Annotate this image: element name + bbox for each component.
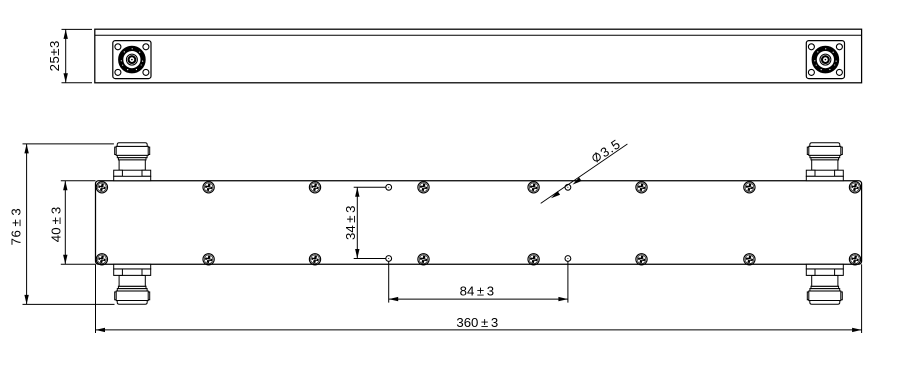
screws top row [96, 182, 860, 193]
main view body [96, 181, 862, 265]
dimension 76±3 [23, 144, 115, 305]
svg-text:84 ± 3: 84 ± 3 [460, 284, 495, 299]
connector J1 flange (top view left) [113, 41, 151, 79]
connector J3 (main view top-left) [114, 143, 151, 181]
svg-text:76 ± 3: 76 ± 3 [9, 208, 24, 246]
svg-text:3.5: 3.5 [598, 136, 624, 160]
screws bottom row [96, 254, 860, 265]
hole B bottom [565, 256, 571, 262]
hole A top [386, 184, 392, 190]
dimension 25±3 [62, 29, 93, 82]
connector J4 (main view top-right) [806, 143, 843, 181]
connector J2 flange (top view right) [806, 41, 844, 79]
svg-text:34 ± 3: 34 ± 3 [343, 205, 358, 240]
svg-text:25±3: 25±3 [47, 40, 62, 71]
hole B top [565, 184, 571, 190]
dimension 84±3 [389, 261, 568, 302]
top view body [95, 29, 862, 83]
connector J6 (main view bottom-right) [806, 264, 843, 304]
dimension 34±3 [354, 187, 386, 258]
leader diameter 3.5 callout [541, 136, 628, 203]
connector J5 (main view bottom-left) [114, 264, 151, 304]
svg-text:40 ± 3: 40 ± 3 [49, 207, 64, 243]
hole A bottom [386, 256, 392, 262]
dimension 40±3 [61, 181, 96, 265]
svg-text:360 ± 3: 360 ± 3 [456, 315, 498, 330]
dimension 360±3 [96, 264, 862, 333]
